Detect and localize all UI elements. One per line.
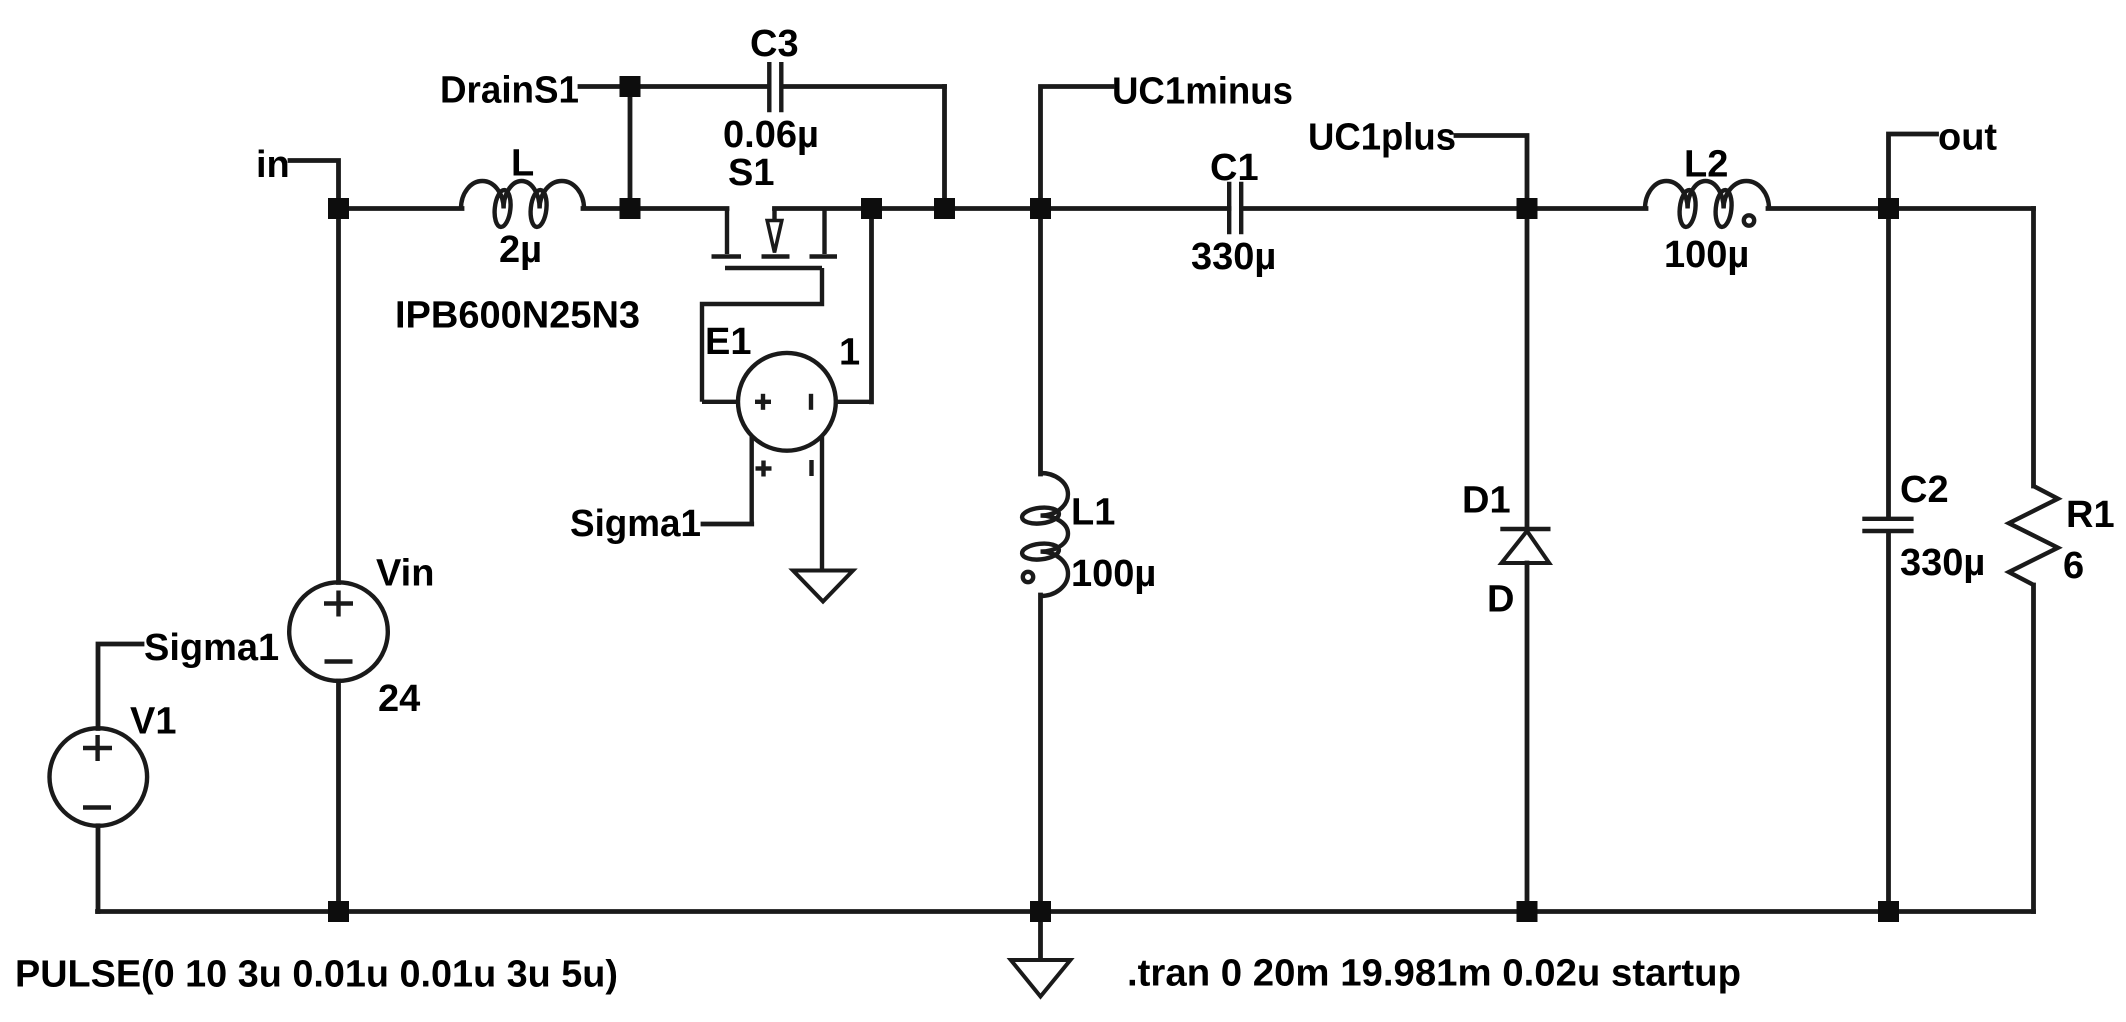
wire <box>1456 136 1527 209</box>
svg-text:0.06µ: 0.06µ <box>723 114 819 156</box>
inductor L2 <box>1645 144 1769 277</box>
svg-text:in: in <box>256 144 290 186</box>
node junction DrainS1 top <box>620 76 641 97</box>
wire <box>580 84 767 89</box>
wire <box>583 206 727 211</box>
wire main rail left <box>339 206 463 211</box>
wire ground stub <box>1038 912 1043 960</box>
node out <box>1938 117 1997 159</box>
svg-text:PULSE(0 10 3u 0.01u 0.01u 3u 5: PULSE(0 10 3u 0.01u 0.01u 3u 5u) <box>15 954 618 996</box>
svg-text:C2: C2 <box>1900 469 1949 511</box>
svg-text:UC1plus: UC1plus <box>1308 117 1456 159</box>
svg-text:L2: L2 <box>1684 144 1728 186</box>
spice directive PULSE <box>15 954 618 996</box>
svg-text:D1: D1 <box>1462 480 1511 522</box>
node junction S1 source <box>861 198 882 219</box>
voltage source Vin <box>289 209 434 912</box>
capacitor C1 <box>1191 147 1276 278</box>
wire <box>869 209 874 402</box>
wire <box>1038 595 1043 912</box>
node junction C3 right <box>934 198 955 219</box>
svg-text:L1: L1 <box>1071 492 1115 534</box>
node junction out <box>1878 198 1899 219</box>
ground (below E1) <box>793 571 853 602</box>
node junction bottom D1 <box>1517 901 1538 922</box>
svg-text:S1: S1 <box>728 152 774 194</box>
node DrainS1 <box>440 70 579 112</box>
wire <box>98 644 142 729</box>
wire <box>1525 209 1530 530</box>
svg-text:C1: C1 <box>1210 147 1259 189</box>
svg-text:330µ: 330µ <box>1900 542 1985 584</box>
svg-text:Vin: Vin <box>376 553 434 595</box>
capacitor C3 <box>723 23 819 156</box>
inductor L <box>461 143 584 272</box>
node in <box>256 144 290 186</box>
node junction UC1plus/D1 <box>1517 198 1538 219</box>
svg-text:100µ: 100µ <box>1664 234 1749 276</box>
node junction bottom ground <box>1030 901 1051 922</box>
wire <box>1886 533 1891 912</box>
wire <box>1886 209 1891 519</box>
svg-text:V1: V1 <box>130 701 176 743</box>
wire <box>775 206 1230 211</box>
svg-text:D: D <box>1487 579 1514 621</box>
node junction bottom C2 <box>1878 901 1899 922</box>
wire <box>1889 134 1937 209</box>
svg-text:R1: R1 <box>2066 494 2115 536</box>
inductor L1 <box>1021 473 1156 596</box>
node Sigma1 (V1 output label) <box>144 627 279 669</box>
resistor R1 <box>2009 486 2115 587</box>
voltage source V1 <box>50 701 177 826</box>
svg-text:2µ: 2µ <box>499 229 542 271</box>
capacitor C2 <box>1862 469 1985 584</box>
node junction UC1minus/L1 <box>1030 198 1051 219</box>
diode D1 <box>1462 480 1551 621</box>
node UC1plus <box>1308 117 1456 159</box>
wire <box>1041 87 1113 209</box>
svg-text:.tran 0 20m 19.981m 0.02u star: .tran 0 20m 19.981m 0.02u startup <box>1127 953 1741 995</box>
svg-text:24: 24 <box>378 678 420 720</box>
svg-text:UC1minus: UC1minus <box>1112 71 1293 113</box>
wire <box>2031 585 2036 912</box>
wire <box>1038 209 1043 475</box>
wire <box>942 87 947 209</box>
svg-text:Sigma1: Sigma1 <box>570 503 701 545</box>
wire <box>1242 206 1647 211</box>
wire <box>1525 563 1530 912</box>
node junction in/Vin <box>328 198 349 219</box>
svg-text:1: 1 <box>839 332 860 374</box>
spice directive .tran <box>1127 953 1741 995</box>
node junction bottom Vin <box>328 901 349 922</box>
wire <box>628 87 633 209</box>
svg-text:6: 6 <box>2063 545 2084 587</box>
svg-text:C3: C3 <box>750 23 799 65</box>
svg-text:Sigma1: Sigma1 <box>144 627 279 669</box>
wire bottom rail <box>98 909 2034 914</box>
node UC1minus <box>1112 71 1293 113</box>
wire <box>290 161 339 209</box>
svg-text:L: L <box>511 143 534 185</box>
ground (bottom) <box>1011 960 1071 997</box>
wire <box>1768 206 2034 211</box>
wire <box>783 84 945 89</box>
dependent source E1 (voltage-controlled voltage source) <box>702 321 872 571</box>
wire <box>96 826 101 912</box>
node junction DrainS1 main <box>620 198 641 219</box>
transistor S1 (MOSFET IPB600N25N3) <box>395 152 837 402</box>
svg-text:out: out <box>1938 117 1997 159</box>
svg-text:330µ: 330µ <box>1191 236 1276 278</box>
wire Sigma1 to E1 <box>703 522 752 527</box>
svg-text:IPB600N25N3: IPB600N25N3 <box>395 295 640 337</box>
wire <box>2031 209 2036 487</box>
node Sigma1 (E1 control) <box>570 503 701 545</box>
svg-text:E1: E1 <box>705 321 751 363</box>
svg-text:DrainS1: DrainS1 <box>440 70 579 112</box>
svg-text:100µ: 100µ <box>1071 553 1156 595</box>
